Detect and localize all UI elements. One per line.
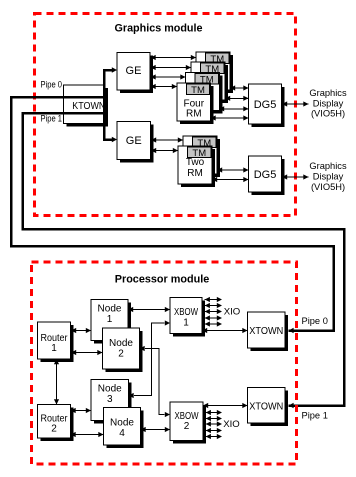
wire RM card2 - DG5 1 (225, 96, 249, 101)
svg-text:1: 1 (51, 343, 57, 354)
box Router 2 (38, 405, 74, 442)
RM card 6 Two RM (178, 146, 215, 187)
svg-text:Pipe 0: Pipe 0 (41, 80, 63, 90)
box XTOWN 2 (248, 388, 289, 427)
wire GE1 - RM card2 (151, 65, 192, 70)
svg-text:Graphics: Graphics (309, 161, 347, 171)
wire RM card5 - DG5 2 (217, 167, 249, 172)
wire Router1 - Node2 (71, 350, 103, 355)
wire GE2 - RM card5 (151, 137, 183, 142)
wire XBOW1 - Node3 (129, 320, 171, 398)
RM card 4 Four RM (177, 83, 214, 124)
svg-text:1: 1 (183, 318, 189, 329)
svg-text:4: 4 (119, 428, 125, 439)
box Node 4 (104, 408, 144, 449)
wire Router1 - Node1 (71, 328, 91, 333)
svg-text:(VIO5H): (VIO5H) (311, 182, 345, 192)
svg-text:Pipe 1: Pipe 1 (302, 410, 328, 420)
wire DG5 1 - graphics display (282, 101, 309, 106)
wire Node4 - XBOW2 (141, 427, 171, 432)
svg-text:Pipe 0: Pipe 0 (302, 316, 328, 326)
wire XBOW1 - XTOWN1 (202, 328, 248, 333)
wire riser from KTOWN to GE boxes (104, 70, 112, 140)
svg-text:Node: Node (110, 417, 134, 428)
box XBOW 2 (170, 402, 206, 444)
wire Node1 - XBOW1 (128, 307, 170, 312)
RM card 2 (Four RM stack) (191, 62, 228, 103)
RM card 5 (Two RM stack) (183, 136, 220, 177)
arrow into GE 1 (112, 67, 117, 72)
box Node 3 (91, 380, 132, 424)
box KTOWN (64, 85, 109, 127)
svg-text:KTOWN: KTOWN (72, 100, 105, 112)
svg-text:TM: TM (191, 85, 205, 96)
svg-text:DG5: DG5 (254, 99, 277, 111)
wire RM card4 - DG5 1 (211, 115, 249, 120)
wire Router2 - Node3 (71, 408, 92, 413)
box Node 1 (91, 300, 131, 344)
box XBOW 1 (170, 298, 205, 337)
svg-text:XIO: XIO (224, 307, 241, 318)
box GE 2 (117, 122, 154, 163)
svg-text:1: 1 (107, 314, 113, 325)
svg-text:2: 2 (184, 421, 190, 432)
svg-text:XBOW: XBOW (174, 307, 198, 318)
wire Router2 - Node4 (71, 432, 104, 437)
label graphics display VIO5H bottom (309, 161, 347, 192)
XIO arrows of XBOW 2 (206, 410, 222, 439)
svg-text:(VIO5H): (VIO5H) (311, 109, 345, 119)
svg-text:2: 2 (118, 348, 124, 359)
box Router 1 (38, 322, 74, 362)
XIO arrows of XBOW 1 (205, 297, 222, 327)
svg-text:Two: Two (186, 157, 205, 168)
wire GE1 - RM card4 (151, 84, 178, 89)
RM card 1 (Four RM stack) (196, 52, 233, 93)
svg-text:RM: RM (187, 168, 203, 179)
RM card 3 (Four RM stack) (186, 73, 223, 114)
svg-text:2: 2 (51, 424, 57, 435)
svg-text:DG5: DG5 (254, 169, 277, 181)
wire pipe0 from KTOWN down left side and across to XTOWN 1 (11, 97, 333, 331)
svg-text:GE: GE (126, 65, 142, 77)
svg-text:Graphics: Graphics (309, 88, 347, 98)
label graphics display VIO5H top (309, 88, 347, 119)
svg-text:Node: Node (98, 303, 122, 314)
arrow into GE 2 (112, 137, 117, 142)
svg-text:RM: RM (186, 108, 202, 119)
svg-text:XTOWN: XTOWN (249, 401, 283, 413)
svg-text:XTOWN: XTOWN (249, 325, 283, 337)
wire XBOW2 - XTOWN2 (203, 403, 248, 408)
wire GE1 - RM card3 (151, 74, 186, 79)
processor module dashed border (32, 262, 297, 464)
box DG5 2 (249, 156, 285, 195)
svg-text:Graphics module: Graphics module (115, 23, 203, 35)
box GE 1 (117, 53, 153, 94)
svg-text:Pipe 1: Pipe 1 (41, 114, 63, 124)
svg-text:Node: Node (109, 338, 133, 349)
wire RM card1 - DG5 1 (230, 85, 249, 90)
box XTOWN 1 (248, 312, 289, 351)
svg-text:XIO: XIO (223, 419, 240, 430)
box DG5 1 (249, 84, 285, 127)
wire DG5 2 - graphics display (282, 174, 309, 179)
svg-text:GE: GE (126, 135, 142, 147)
svg-text:Node: Node (98, 383, 122, 394)
wire RM card3 - DG5 1 (219, 106, 249, 111)
wire Router1 - Router2 (54, 359, 59, 405)
wire Node2 - XBOW2 (140, 346, 171, 417)
svg-text:Processor module: Processor module (115, 274, 210, 286)
wire pipe1 from KTOWN down left side and across to XTOWN 2 (23, 113, 344, 406)
svg-text:Display: Display (313, 172, 344, 182)
box Node 2 (103, 328, 143, 372)
wire GE2 - RM card6 (151, 148, 178, 153)
svg-text:3: 3 (107, 394, 113, 405)
wire RM card6 - DG5 2 (212, 177, 249, 182)
graphics module dashed border (35, 14, 296, 216)
wire GE1 - RM card1 (151, 55, 197, 60)
svg-text:Display: Display (313, 98, 344, 108)
